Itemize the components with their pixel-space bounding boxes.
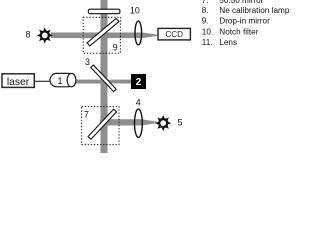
svg-text:Notch filter: Notch filter <box>219 27 258 36</box>
mirror 3 <box>91 65 116 92</box>
svg-text:9: 9 <box>113 43 118 53</box>
svg-text:7.: 7. <box>202 0 209 5</box>
lens 11 <box>135 21 142 45</box>
wire: connector laser to objective <box>34 80 50 82</box>
svg-text:Lens: Lens <box>219 38 237 47</box>
svg-text:8: 8 <box>26 30 31 40</box>
wire: laser beam <box>76 80 131 84</box>
svg-text:8.: 8. <box>202 6 209 15</box>
svg-text:CCD: CCD <box>165 30 183 39</box>
drop-in mirror 9 <box>87 18 119 46</box>
lens 4 <box>135 109 143 137</box>
CCD box <box>158 28 190 40</box>
svg-text:10: 10 <box>130 5 140 15</box>
laser box <box>2 74 34 88</box>
wire: taper arrow into star 5 <box>142 119 157 125</box>
svg-text:9.: 9. <box>202 17 209 26</box>
svg-text:Drop-in mirror: Drop-in mirror <box>219 17 270 26</box>
svg-text:1: 1 <box>57 76 62 87</box>
wire: vertical beam <box>101 0 108 153</box>
svg-text:2: 2 <box>136 77 142 88</box>
dashed box (mirror 7) <box>82 107 119 145</box>
svg-text:4: 4 <box>136 98 141 108</box>
dashed box (drop-in mirror 9) <box>83 17 120 53</box>
black square 2 <box>131 74 146 89</box>
wire: bottom horizontal beam <box>100 119 142 125</box>
svg-text:10.: 10. <box>202 27 213 36</box>
svg-text:11.: 11. <box>202 38 213 47</box>
objective 1 <box>50 73 74 86</box>
notch filter 10 <box>88 9 120 14</box>
svg-text:50:50 mirror: 50:50 mirror <box>219 0 263 5</box>
svg-text:5: 5 <box>178 118 183 128</box>
svg-text:7: 7 <box>84 109 89 119</box>
svg-text:laser: laser <box>7 77 30 88</box>
star: Ne lamp 8 <box>37 27 53 43</box>
svg-text:Ne calibration lamp: Ne calibration lamp <box>219 6 290 15</box>
wire: top horizontal beam (lamp to lens) <box>51 33 142 39</box>
mirror 7 <box>88 109 117 139</box>
wire: taper arrow into CCD <box>142 33 158 39</box>
svg-text:3: 3 <box>85 57 90 67</box>
star 5 <box>155 115 171 131</box>
